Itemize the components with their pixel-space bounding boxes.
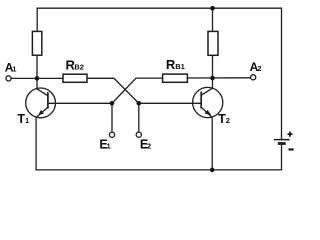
- svg-text:1: 1: [25, 116, 29, 125]
- svg-text:2: 2: [257, 64, 261, 73]
- svg-text:B1: B1: [175, 62, 185, 71]
- svg-text:2: 2: [147, 142, 151, 151]
- svg-text:1: 1: [12, 64, 16, 73]
- svg-text:B2: B2: [74, 62, 84, 71]
- svg-text:2: 2: [226, 116, 230, 125]
- svg-text:1: 1: [107, 142, 111, 151]
